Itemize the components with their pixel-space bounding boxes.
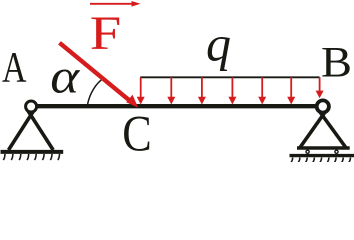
svg-text:C: C	[122, 106, 152, 162]
svg-text:α: α	[50, 50, 81, 104]
svg-text:q: q	[206, 16, 231, 72]
svg-text:A: A	[2, 45, 27, 92]
svg-text:B: B	[321, 39, 352, 86]
svg-text:F: F	[90, 7, 122, 60]
